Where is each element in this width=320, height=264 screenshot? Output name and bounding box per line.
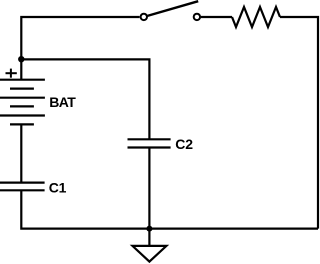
battery plus label bbox=[6, 69, 17, 78]
wire bbox=[21, 17, 139, 80]
svg-text:BAT: BAT bbox=[49, 94, 76, 110]
svg-text:C1: C1 bbox=[49, 180, 67, 196]
ground bbox=[133, 246, 167, 262]
switch SW1 bbox=[141, 1, 200, 20]
node junction bbox=[18, 56, 24, 62]
wire bbox=[21, 59, 149, 139]
node junction bbox=[146, 226, 152, 232]
capacitor C2 bbox=[128, 139, 171, 147]
wire bbox=[148, 229, 150, 246]
wire bbox=[21, 190, 318, 228]
wire bbox=[280, 17, 318, 229]
wire bbox=[201, 16, 232, 18]
resistor R1 bbox=[232, 7, 280, 27]
wire bbox=[20, 124, 22, 182]
battery BAT bbox=[0, 80, 45, 125]
svg-text:C2: C2 bbox=[175, 136, 193, 152]
wire bbox=[148, 148, 150, 229]
capacitor C1 bbox=[0, 183, 45, 191]
